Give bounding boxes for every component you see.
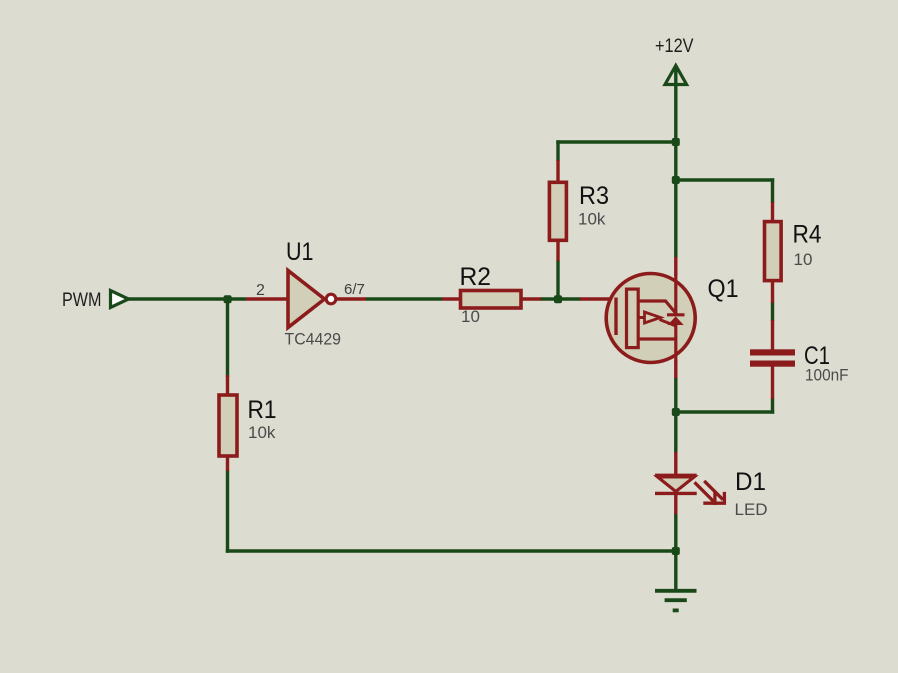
svg-text:R1: R1: [248, 396, 277, 424]
Q1 substrate arrow head: [645, 312, 661, 323]
D1 cathode pin: [674, 494, 677, 514]
Q1 body diode triangle: [668, 316, 684, 325]
svg-text:TC4429: TC4429: [285, 330, 342, 349]
D1 emission arrow 2 shaft: [704, 481, 723, 500]
resistor R3: [549, 160, 566, 261]
Q1 gate electrode bar: [614, 298, 617, 336]
Q1 drain pin: [674, 257, 677, 276]
svg-text:D1: D1: [735, 468, 766, 496]
svg-text:LED: LED: [735, 500, 768, 519]
Q1 drain connection: [638, 301, 676, 314]
svg-text:6/7: 6/7: [344, 281, 365, 298]
Q1 arrow diagonal to source: [660, 320, 677, 327]
Q1 body diode cathode bar: [667, 313, 685, 316]
svg-text:10: 10: [794, 250, 813, 269]
wire: between R4 and C1 (green part): [771, 302, 774, 321]
R1 bottom pin: [226, 455, 229, 471]
wire: D1 cathode down to ground junction and ground: [674, 512, 677, 589]
svg-text:10k: 10k: [248, 423, 276, 442]
capacitor C1: [750, 320, 795, 399]
Q1 substrate arrow lead: [638, 316, 645, 319]
resistor R4: [765, 202, 782, 303]
D1 emission arrow 1 head: [703, 492, 715, 503]
R4 body: [765, 222, 782, 281]
wire: bottom-right horizontal to junction at 676,412: [676, 410, 774, 413]
wire: junction2 to R4 branch horizontal: [676, 178, 774, 181]
wire: R4 branch vertical top: [771, 178, 774, 203]
C1 top pin: [771, 320, 774, 350]
wire: R2 to Q1 gate (green part): [540, 297, 581, 300]
D1 anode bar: [655, 474, 697, 477]
resistor R1: [219, 375, 237, 471]
svg-text:R2: R2: [460, 263, 492, 291]
svg-text:R3: R3: [579, 182, 609, 210]
svg-text:R4: R4: [793, 221, 822, 249]
svg-text:PWM: PWM: [62, 290, 102, 311]
U1 inversion bubble: [326, 294, 336, 304]
R4 top pin: [771, 202, 774, 223]
wire: junction B down to R1: [226, 299, 229, 377]
C1 bottom plate: [750, 361, 795, 367]
Q1 gate pin: [580, 297, 617, 300]
C1 top plate: [750, 349, 795, 355]
node junction B (227,299): [224, 295, 232, 303]
svg-text:10: 10: [461, 307, 480, 326]
Q1 internal drain stub: [674, 274, 677, 314]
transistor Q1 (N-MOSFET): [580, 257, 695, 378]
D1 triangle: [658, 477, 695, 492]
wire: power symbol down to top junction: [674, 66, 677, 182]
D1 cathode bar: [655, 492, 697, 495]
wire: PWM terminal to U1 input (green part): [127, 297, 246, 300]
Q1 source connection: [638, 337, 676, 340]
wire: U1 output to R2 (green part): [366, 297, 442, 300]
D1 anode pin: [674, 452, 677, 476]
U1 body triangle: [288, 271, 325, 328]
R3 top pin: [556, 160, 559, 183]
Q1 body circle: [606, 274, 695, 363]
terminal PWM arrow: [111, 291, 129, 308]
node junction C1 bottom (676,412): [672, 408, 680, 416]
ground symbol: [655, 591, 697, 611]
power +12V symbol: [665, 66, 687, 85]
Q1 source pin: [674, 360, 677, 378]
R4 bottom pin: [771, 280, 774, 303]
R2 body: [461, 291, 522, 309]
wire: Q1 source to D1 (green part): [674, 377, 677, 454]
R3 body: [549, 182, 566, 240]
wire: top junction to R3 branch horizontal: [556, 140, 676, 143]
U1 input pin: [246, 297, 288, 300]
svg-text:100nF: 100nF: [805, 366, 849, 385]
op-amp U1 (TC4429 inverter): [246, 271, 366, 328]
D1 emission arrow 1 shaft: [695, 482, 714, 501]
wire: C1 bottom to bottom-right corner: [771, 398, 774, 414]
node junction top (676,142): [672, 138, 680, 146]
R1 top pin: [226, 375, 229, 396]
svg-text:2: 2: [256, 282, 265, 299]
wire: junction2 down to Q1 drain (green part): [674, 180, 677, 258]
wire: R1 bottom down to bottom rail: [226, 470, 229, 553]
wire: bottom rail horizontal: [226, 549, 676, 552]
Q1 internal source stub: [674, 325, 677, 362]
C1 bottom pin: [771, 366, 774, 399]
D1 emission arrow 2 head: [713, 492, 725, 503]
node junction R2/R3/gate (558,299): [554, 295, 562, 303]
svg-text:10k: 10k: [578, 210, 606, 229]
wire: R3 branch vertical top: [556, 140, 559, 161]
svg-text:Q1: Q1: [708, 275, 739, 303]
svg-text:U1: U1: [286, 238, 314, 266]
U1 output pin: [336, 297, 366, 300]
Q1 channel plate: [627, 289, 639, 348]
node junction ground (676,551): [672, 547, 680, 555]
node junction R4 branch (676,180): [672, 176, 680, 184]
R2 left pin: [442, 297, 461, 300]
resistor R2: [442, 291, 541, 309]
diode D1 (LED): [655, 452, 724, 514]
wire: R3 bottom to main rail: [556, 260, 559, 301]
R1 body: [219, 395, 237, 456]
R3 bottom pin: [556, 239, 559, 261]
R2 right pin: [520, 297, 541, 300]
svg-text:+12V: +12V: [655, 36, 694, 57]
